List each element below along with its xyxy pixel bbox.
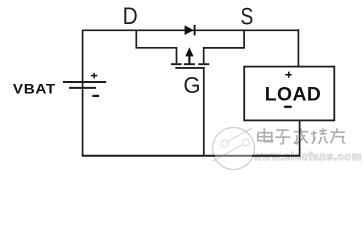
- mosfet body arrow: [188, 56, 190, 65]
- wire: S corner down to LOAD top: [297, 29, 299, 66]
- load minus sign: [284, 106, 292, 108]
- 子: [275, 130, 290, 144]
- battery plus sign: [91, 73, 97, 79]
- wire: gate down to bottom rail: [203, 68, 205, 156]
- wire: top rail D-S: [82, 29, 298, 31]
- watermark logo circle: [213, 128, 255, 170]
- wire: LOAD bottom down to rail: [299, 120, 301, 155]
- svg-text:LOAD: LOAD: [265, 85, 321, 106]
- wire: source branch from top rail to MOSFET: [204, 30, 244, 63]
- mosfet gate plate: [175, 67, 204, 69]
- watermark circle overlay (lightens rail inside logo): [214, 129, 254, 169]
- watermark chinese text 电子发烧友 (drawn strokes): [258, 128, 346, 144]
- load plus sign: [285, 72, 292, 78]
- svg-text:VBAT: VBAT: [13, 82, 56, 97]
- wire: left vertical (battery branch): [82, 30, 84, 155]
- svg-text:G: G: [183, 73, 200, 99]
- svg-text:S: S: [241, 2, 254, 30]
- 电: [258, 128, 273, 142]
- battery VBAT: long plate: [63, 81, 106, 83]
- svg-text:www.elecfans.com: www.elecfans.com: [252, 151, 362, 163]
- diode cathode bar: [194, 25, 196, 36]
- mosfet right contact bar: [198, 63, 209, 65]
- mosfet middle contact bar: [184, 63, 195, 65]
- battery VBAT: short plate: [69, 87, 96, 89]
- diode (body diode) triangle: [185, 25, 194, 35]
- 烧: [311, 128, 328, 144]
- LOAD box: [244, 67, 334, 121]
- mosfet left contact bar: [171, 63, 182, 65]
- svg-text:D: D: [123, 3, 138, 30]
- wire: bottom rail: [82, 155, 301, 157]
- 发: [294, 128, 309, 144]
- battery minus sign: [92, 95, 99, 97]
- wire: drain branch from top rail to MOSFET: [136, 30, 176, 63]
- 友: [330, 128, 345, 144]
